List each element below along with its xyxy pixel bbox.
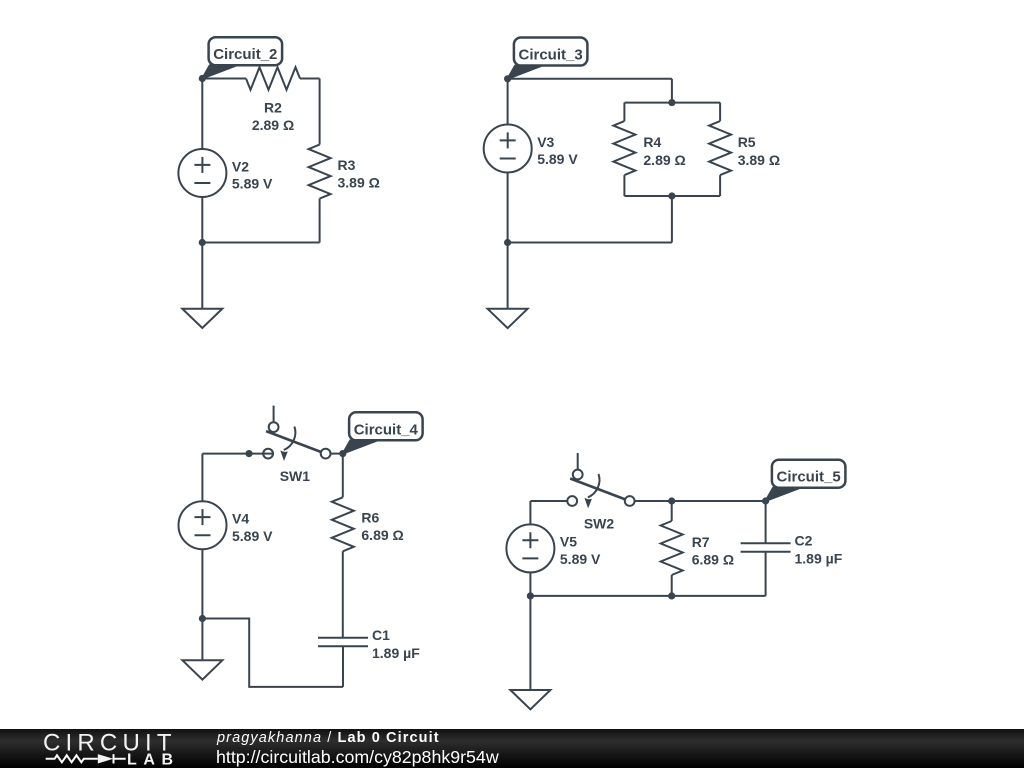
wire C1 down	[342, 646, 344, 687]
footer title text	[217, 729, 440, 747]
wire top rail	[508, 78, 672, 80]
svg-text:LAB: LAB	[127, 752, 180, 769]
node junction	[199, 615, 206, 622]
svg-text:3.89 Ω: 3.89 Ω	[738, 152, 780, 168]
wire switch to C2 branch	[635, 500, 766, 502]
node junction	[668, 192, 675, 199]
svg-text:1.89 µF: 1.89 µF	[372, 645, 420, 661]
wire left branch upper	[507, 79, 509, 125]
switch SW1	[263, 406, 330, 461]
wire R6 to C1	[342, 551, 344, 637]
svg-text:Circuit_2: Circuit_2	[213, 46, 277, 63]
svg-text:SW2: SW2	[584, 515, 615, 531]
svg-text:6.89 Ω: 6.89 Ω	[692, 552, 734, 568]
svg-text:3.89 Ω: 3.89 Ω	[338, 175, 380, 191]
svg-text:V4: V4	[232, 511, 249, 527]
Circuit_4 : V4 SW1 R6 C1	[179, 406, 423, 687]
svg-text:5.89 V: 5.89 V	[232, 176, 273, 192]
wire right branch lower	[319, 199, 321, 243]
wire switch to node	[331, 453, 343, 455]
label R3 value	[338, 157, 380, 191]
node junction	[504, 239, 511, 246]
wire R7 top stub	[671, 501, 673, 521]
ground	[510, 690, 550, 709]
wire ground stem	[507, 243, 509, 309]
wire down to R6	[342, 454, 344, 498]
svg-text:V2: V2	[232, 158, 249, 174]
wire bottom route	[202, 619, 343, 687]
wire left branch lower	[201, 549, 203, 618]
svg-text:Circuit_3: Circuit_3	[518, 47, 582, 64]
wire top rail left segment	[202, 78, 246, 80]
node junction	[668, 99, 675, 106]
svg-text:C2: C2	[795, 533, 813, 549]
node label callout Circuit_5	[766, 460, 846, 501]
wire left branch upper	[529, 501, 531, 524]
svg-text:5.89 V: 5.89 V	[232, 528, 273, 544]
svg-text:R3: R3	[338, 157, 356, 173]
label C1 value	[372, 627, 420, 661]
resistor R4	[613, 121, 635, 175]
footer bar	[0, 729, 1024, 768]
node junction	[339, 450, 346, 457]
svg-text:V3: V3	[537, 134, 554, 150]
wire bottom rail	[202, 242, 319, 244]
wire left branch upper	[201, 79, 203, 150]
capacitor C1	[318, 638, 368, 647]
wire bottom rail	[530, 595, 765, 597]
node junction	[199, 75, 206, 82]
svg-text:C1: C1	[372, 627, 390, 643]
resistor R6	[332, 497, 354, 551]
wire R4 bottom stub	[623, 175, 625, 196]
wire C2 top stub	[765, 501, 767, 543]
label R2 value	[252, 99, 294, 133]
wire R7 bottom stub	[671, 575, 673, 596]
svg-text:Circuit_4: Circuit_4	[354, 421, 419, 438]
voltage source V3	[484, 125, 532, 173]
node label callout Circuit_2	[202, 37, 282, 78]
svg-text:R6: R6	[361, 509, 379, 525]
label R5 value	[738, 134, 780, 168]
svg-text:V5: V5	[560, 534, 577, 550]
Circuit_5 : V5 SW2 R7 C2	[506, 453, 845, 709]
node label callout Circuit_4	[343, 412, 423, 453]
wire bottom feed down	[671, 196, 673, 243]
svg-text:5.89 V: 5.89 V	[537, 151, 578, 167]
node junction	[199, 239, 206, 246]
label V4 value	[232, 511, 273, 544]
wire ground stem	[201, 243, 203, 309]
wire top feed down	[671, 79, 673, 103]
voltage source V4	[179, 501, 227, 549]
voltage source V5	[506, 524, 554, 572]
node junction	[527, 592, 534, 599]
wire right branch upper	[319, 79, 321, 145]
wire left branch lower	[529, 572, 531, 596]
node label callout Circuit_3	[508, 38, 588, 79]
label V3 value	[537, 134, 578, 167]
label C2 value	[795, 533, 843, 567]
svg-text:R2: R2	[264, 99, 282, 115]
wire left branch lower	[507, 173, 509, 243]
ground	[488, 309, 528, 328]
wire R5 bottom stub	[719, 175, 721, 196]
svg-text:5.89 V: 5.89 V	[560, 551, 601, 567]
svg-text:SW1: SW1	[280, 468, 311, 484]
wire C2 bottom stub	[765, 552, 767, 596]
resistor R7	[661, 521, 683, 575]
logo resistor-diode glyph	[46, 754, 126, 763]
svg-text:R7: R7	[692, 534, 710, 550]
label R6 value	[361, 509, 403, 543]
resistor R2	[246, 67, 300, 90]
svg-text:2.89 Ω: 2.89 Ω	[252, 117, 294, 133]
svg-text:Circuit_5: Circuit_5	[776, 469, 840, 486]
wire ground stem	[529, 596, 531, 690]
svg-text:1.89 µF: 1.89 µF	[795, 550, 843, 566]
label V5 value	[560, 534, 601, 567]
wire left branch lower	[201, 197, 203, 243]
ground	[182, 309, 222, 328]
label R4 value	[643, 134, 685, 168]
resistor R3	[309, 145, 331, 199]
wire parallel bottom rail	[624, 195, 720, 197]
wire bottom rail	[508, 242, 672, 244]
resistor R5	[709, 121, 731, 175]
svg-text:R4: R4	[643, 134, 661, 150]
node junction	[668, 592, 675, 599]
wire R4 top stub	[623, 103, 625, 122]
wire ground stem	[201, 619, 203, 661]
node junction	[245, 450, 252, 457]
capacitor C2	[741, 543, 791, 552]
wire parallel top rail	[624, 102, 720, 104]
node junction	[668, 497, 675, 504]
wire top rail right segment	[300, 78, 320, 80]
Circuit_3 : parallel R4 R5 with V3	[484, 38, 780, 329]
CircuitLab logo	[40, 729, 240, 769]
wire top rail to switch	[530, 500, 567, 502]
svg-text:6.89 Ω: 6.89 Ω	[361, 527, 403, 543]
voltage source V2	[178, 149, 226, 197]
node junction	[762, 497, 769, 504]
Circuit_2 : series R2 R3 with V2	[178, 37, 379, 328]
node junction	[504, 75, 511, 82]
svg-text:2.89 Ω: 2.89 Ω	[643, 152, 685, 168]
wire top rail to switch	[202, 453, 263, 455]
ground	[182, 660, 222, 679]
svg-text:R5: R5	[738, 134, 756, 150]
label R7 value	[692, 534, 734, 568]
wire R5 top stub	[719, 103, 721, 122]
switch SW2	[567, 453, 634, 508]
wire left branch upper	[201, 454, 203, 502]
label V2 value	[232, 158, 273, 191]
footer url text	[216, 748, 499, 766]
